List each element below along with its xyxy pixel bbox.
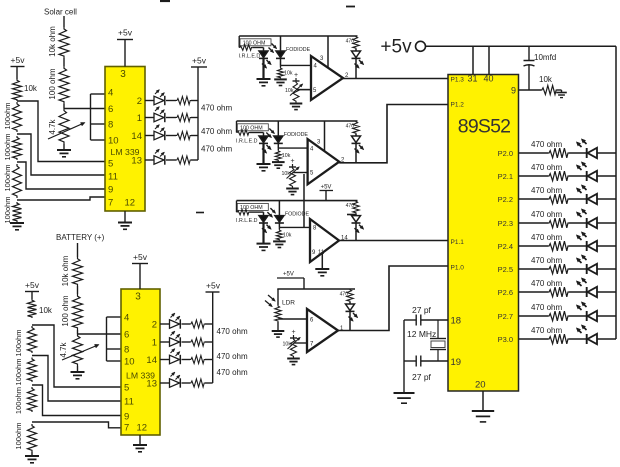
svg-text:3: 3	[120, 69, 126, 80]
svg-text:10k: 10k	[284, 70, 293, 76]
svg-text:470 ohm: 470 ohm	[531, 163, 562, 172]
svg-text:11: 11	[124, 397, 134, 408]
svg-text:P2.5: P2.5	[498, 265, 513, 274]
svg-text:10k: 10k	[39, 306, 53, 315]
svg-text:10k: 10k	[285, 88, 294, 94]
svg-text:470 ohm: 470 ohm	[201, 145, 232, 154]
svg-text:1: 1	[152, 338, 157, 349]
svg-text:470 ohm: 470 ohm	[531, 186, 562, 195]
svg-text:+5v: +5v	[11, 55, 26, 65]
svg-text:31: 31	[468, 74, 478, 84]
svg-text:40: 40	[484, 74, 494, 84]
svg-text:13: 13	[131, 156, 142, 167]
svg-text:P2.7: P2.7	[498, 312, 513, 321]
svg-text:FODIODE: FODIODE	[286, 47, 311, 53]
svg-text:P2.3: P2.3	[498, 219, 513, 228]
svg-text:9: 9	[511, 86, 516, 96]
svg-text:14: 14	[146, 355, 157, 366]
svg-text:100 OHM: 100 OHM	[243, 41, 266, 47]
svg-text:100ohm: 100ohm	[14, 329, 23, 356]
svg-text:470 ohm: 470 ohm	[531, 303, 562, 312]
svg-text:+5V: +5V	[321, 185, 332, 191]
svg-text:470 ohm: 470 ohm	[531, 210, 562, 219]
svg-text:P3.0: P3.0	[498, 335, 513, 344]
svg-text:2: 2	[152, 320, 157, 331]
svg-text:I.R.L.E.D: I.R.L.E.D	[236, 139, 258, 145]
svg-text:10k: 10k	[539, 75, 553, 84]
svg-text:8: 8	[124, 345, 129, 356]
svg-text:P1.3: P1.3	[451, 77, 465, 84]
svg-text:10k: 10k	[24, 84, 38, 93]
svg-text:100ohm: 100ohm	[3, 133, 12, 160]
svg-text:4: 4	[108, 88, 113, 99]
svg-text:100ohm: 100ohm	[14, 387, 23, 414]
svg-text:P2.6: P2.6	[498, 288, 513, 297]
svg-text:12: 12	[137, 423, 148, 434]
svg-text:10: 10	[108, 136, 119, 147]
svg-text:12 MHz: 12 MHz	[407, 329, 436, 339]
svg-text:11: 11	[318, 250, 325, 256]
svg-text:27 pf: 27 pf	[412, 305, 432, 315]
svg-text:27 pf: 27 pf	[412, 372, 432, 382]
svg-text:10k: 10k	[281, 171, 290, 177]
svg-text:10k: 10k	[282, 153, 291, 159]
svg-text:BATTERY (+): BATTERY (+)	[56, 233, 105, 242]
svg-text:6: 6	[124, 330, 129, 341]
svg-text:100 OHM: 100 OHM	[240, 205, 263, 211]
svg-text:7: 7	[124, 423, 129, 434]
svg-text:P2.2: P2.2	[498, 195, 513, 204]
svg-text:9: 9	[108, 185, 113, 196]
svg-text:+5V: +5V	[283, 272, 294, 278]
svg-text:P1.2: P1.2	[451, 102, 465, 109]
svg-text:100 ohm: 100 ohm	[48, 68, 57, 99]
svg-text:3: 3	[135, 292, 141, 303]
svg-text:470 ohm: 470 ohm	[531, 279, 562, 288]
svg-text:100 ohm: 100 ohm	[61, 295, 70, 326]
svg-text:+5v: +5v	[206, 281, 221, 291]
svg-text:6: 6	[108, 104, 113, 115]
svg-text:470 ohm: 470 ohm	[201, 104, 232, 113]
svg-text:+: +	[290, 158, 294, 165]
svg-text:P2.4: P2.4	[498, 242, 513, 251]
svg-text:13: 13	[146, 379, 157, 390]
svg-text:4: 4	[124, 313, 129, 324]
svg-text:100ohm: 100ohm	[3, 102, 12, 129]
svg-text:12: 12	[125, 198, 136, 209]
svg-text:+5v: +5v	[25, 280, 40, 290]
svg-text:470 ohm: 470 ohm	[217, 368, 248, 377]
svg-text:+5v: +5v	[118, 28, 133, 38]
svg-text:14: 14	[131, 131, 142, 142]
svg-text:Solar cell: Solar cell	[44, 8, 77, 17]
svg-text:100ohm: 100ohm	[14, 422, 23, 449]
svg-text:+: +	[291, 329, 295, 336]
svg-text:2: 2	[137, 96, 142, 107]
svg-text:10k: 10k	[283, 232, 292, 238]
svg-text:4.7k: 4.7k	[59, 341, 68, 357]
svg-text:470 ohm: 470 ohm	[531, 256, 562, 265]
svg-text:I.R.L.E.D: I.R.L.E.D	[239, 54, 261, 60]
svg-text:100ohm: 100ohm	[14, 358, 23, 385]
svg-text:5: 5	[124, 383, 129, 394]
svg-text:470 ohm: 470 ohm	[531, 326, 562, 335]
svg-text:10k: 10k	[282, 342, 291, 348]
svg-text:5: 5	[108, 159, 113, 170]
svg-text:P2.0: P2.0	[498, 149, 513, 158]
svg-text:9: 9	[124, 412, 129, 423]
svg-text:470 ohm: 470 ohm	[201, 127, 232, 136]
svg-text:8: 8	[108, 120, 113, 131]
svg-text:1: 1	[137, 113, 142, 124]
svg-text:19: 19	[451, 357, 462, 368]
svg-text:LDR: LDR	[282, 300, 295, 307]
svg-text:FODIODE: FODIODE	[285, 212, 310, 218]
svg-text:100ohm: 100ohm	[3, 164, 12, 191]
svg-text:I.R.L.E.D: I.R.L.E.D	[236, 218, 258, 224]
svg-text:10k ohm: 10k ohm	[48, 26, 57, 57]
svg-text:P2.1: P2.1	[498, 172, 513, 181]
svg-text:20: 20	[475, 380, 486, 391]
svg-text:100 OHM: 100 OHM	[240, 126, 263, 132]
svg-text:4.7k: 4.7k	[48, 118, 57, 134]
svg-text:470 ohm: 470 ohm	[217, 352, 248, 361]
svg-text:11: 11	[108, 172, 118, 183]
svg-text:470 ohm: 470 ohm	[217, 327, 248, 336]
svg-text:FODIODE: FODIODE	[284, 132, 309, 138]
svg-text:470 ohm: 470 ohm	[531, 140, 562, 149]
svg-text:10mfd: 10mfd	[534, 53, 556, 62]
svg-text:+: +	[294, 72, 298, 79]
svg-text:7: 7	[108, 198, 113, 209]
svg-text:89S52: 89S52	[458, 116, 510, 138]
svg-text:+5v: +5v	[192, 56, 207, 66]
svg-text:470 ohm: 470 ohm	[531, 233, 562, 242]
svg-text:10k ohm: 10k ohm	[61, 255, 70, 286]
svg-text:10: 10	[124, 357, 135, 368]
svg-text:P1.0: P1.0	[451, 265, 465, 272]
svg-text:100ohm: 100ohm	[3, 196, 12, 223]
svg-text:18: 18	[451, 316, 462, 327]
svg-text:+5v: +5v	[133, 252, 148, 262]
svg-text:P1.1: P1.1	[451, 239, 465, 246]
svg-text:+5v: +5v	[380, 37, 412, 58]
